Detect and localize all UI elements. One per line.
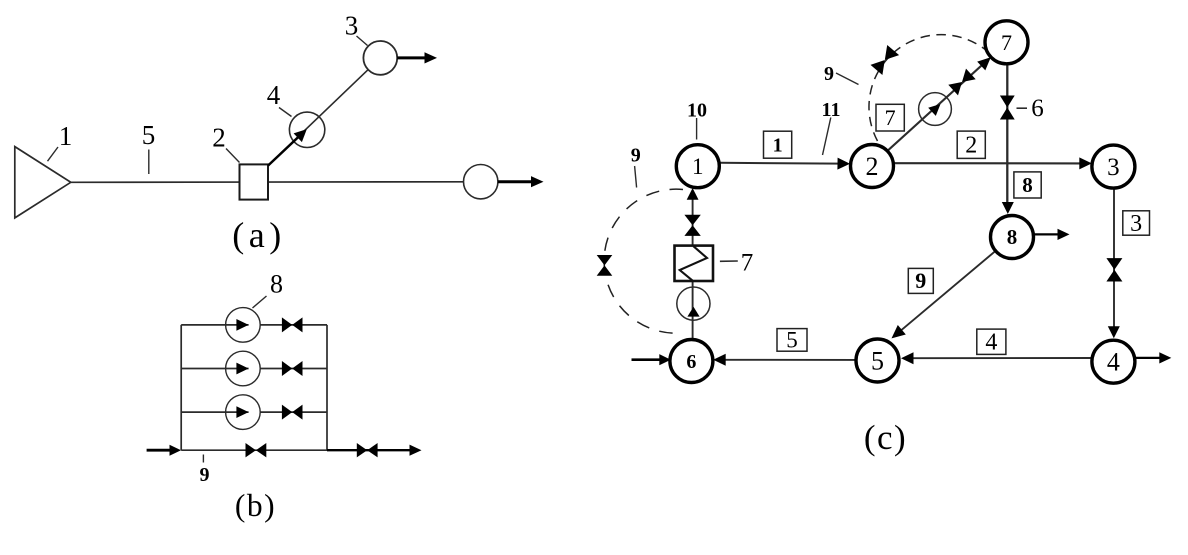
pump on pipe 2-7 (circle with arrow) bbox=[919, 93, 952, 126]
edge label box 5 bbox=[777, 327, 807, 352]
svg-text:9: 9 bbox=[631, 145, 641, 167]
label 10 with leader bbox=[687, 100, 707, 140]
svg-text:(a): (a) bbox=[232, 215, 285, 255]
node 2 (circle) bbox=[851, 145, 894, 188]
demand arrow at node 4 bbox=[1135, 352, 1171, 363]
svg-text:1: 1 bbox=[692, 154, 704, 179]
caption (c) bbox=[864, 418, 907, 457]
valve on riser bbox=[684, 215, 700, 236]
edge label box 1 bbox=[764, 131, 792, 158]
edge label box 4 bbox=[977, 329, 1006, 356]
svg-text:6: 6 bbox=[1031, 95, 1044, 122]
outlet valve bbox=[357, 443, 378, 457]
dashed loop 9 (top) bbox=[869, 35, 987, 141]
pipe 9 (node 8 to node 5) bbox=[892, 251, 996, 338]
svg-text:6: 6 bbox=[686, 351, 696, 373]
label 8 with leader (pumps) bbox=[253, 270, 284, 309]
bypass valve 9 bbox=[246, 443, 267, 457]
svg-text:7: 7 bbox=[885, 105, 896, 130]
demand arrow at node 8 bbox=[1034, 229, 1070, 240]
junction node 2 (square) bbox=[240, 164, 269, 199]
node 4 (circle) bbox=[1092, 340, 1135, 383]
node 6 (circle) bbox=[670, 340, 713, 383]
pipe 1 (node 1 to node 2) bbox=[719, 158, 850, 170]
svg-text:3: 3 bbox=[345, 11, 359, 41]
svg-text:4: 4 bbox=[267, 80, 281, 110]
inlet arrow at node 6 bbox=[632, 354, 671, 365]
svg-text:(c): (c) bbox=[864, 418, 907, 457]
svg-text:2: 2 bbox=[866, 152, 879, 181]
valve in branch 1 bbox=[282, 317, 303, 332]
valve in branch 2 bbox=[282, 361, 303, 376]
branch pipe 2 bbox=[181, 368, 327, 370]
reservoir 1 (source triangle) bbox=[15, 147, 71, 218]
bottom bypass pipe bbox=[181, 449, 330, 451]
pipe 7 (node 2 to node 7) bbox=[887, 57, 991, 151]
svg-text:1: 1 bbox=[59, 121, 73, 151]
label 11 with leader bbox=[822, 99, 841, 155]
label 9 with leader (top loop) bbox=[824, 63, 859, 85]
svg-text:8: 8 bbox=[270, 270, 283, 299]
label 1 with leader bbox=[48, 121, 73, 161]
pump on riser (circle with arrow) bbox=[677, 287, 710, 320]
branch pipe 3 bbox=[181, 411, 327, 413]
label 9 with leader (left loop) bbox=[631, 145, 641, 188]
outlet arrow (b) bbox=[410, 445, 422, 456]
demand node (right circle) bbox=[464, 165, 498, 199]
demand arrow at node 3 bbox=[397, 52, 437, 63]
node 7 (circle) bbox=[985, 21, 1028, 64]
pipe from node 7 to node 8 bbox=[1002, 64, 1014, 214]
label 7 with leader dash bbox=[720, 250, 753, 277]
svg-text:8: 8 bbox=[1007, 225, 1018, 249]
pipe 3 (node 3 to node 4) bbox=[1108, 188, 1120, 338]
demand arrow at right node bbox=[498, 176, 544, 187]
svg-text:9: 9 bbox=[915, 268, 926, 293]
valve in branch 3 bbox=[282, 405, 303, 420]
node 8 (circle) bbox=[991, 216, 1034, 259]
pipe 2 (node 2 to node 3) bbox=[894, 157, 1092, 169]
edge label box 8 bbox=[1014, 172, 1041, 198]
label 4 with leader bbox=[267, 80, 292, 117]
pump in branch 1 (circle with arrow) bbox=[226, 308, 261, 343]
pipe from node 6 to node 1 bbox=[692, 190, 694, 340]
svg-text:5: 5 bbox=[786, 327, 798, 352]
manifold right header pipe bbox=[326, 325, 328, 450]
valve on top dashed loop bbox=[871, 45, 900, 75]
pipe 5 (main line) bbox=[71, 181, 464, 184]
pump in branch 2 (circle with arrow) bbox=[226, 351, 261, 386]
heater 7 (square with zigzag) bbox=[675, 246, 714, 281]
pipe 5 (node 5 to node 6) bbox=[713, 354, 856, 366]
edge label box 2 bbox=[957, 131, 985, 159]
edge label box 9 bbox=[908, 268, 933, 293]
edge label box 3 bbox=[1123, 211, 1150, 237]
valve 6 on pipe 7-8 bbox=[1000, 96, 1015, 120]
svg-text:(b): (b) bbox=[235, 488, 276, 523]
svg-text:9: 9 bbox=[824, 63, 834, 85]
edge label box 7 bbox=[876, 104, 904, 131]
branch pipe 1 bbox=[181, 324, 327, 326]
label 6 with leader dash bbox=[1017, 95, 1044, 122]
pipe 4 (node 4 to node 5) bbox=[901, 352, 1092, 364]
svg-text:1: 1 bbox=[773, 134, 783, 156]
branch pipe to node 3 bbox=[268, 58, 380, 166]
label 5 with leader bbox=[142, 120, 156, 174]
svg-text:4: 4 bbox=[1107, 348, 1120, 377]
svg-text:5: 5 bbox=[871, 346, 884, 375]
svg-text:9: 9 bbox=[200, 464, 210, 486]
valve on pipe 2-7 bbox=[948, 69, 975, 96]
pump in branch 3 (circle with arrow) bbox=[226, 395, 261, 430]
demand node 3 (circle) bbox=[363, 41, 397, 75]
valve on left dashed loop bbox=[597, 255, 613, 276]
node 3 (circle) bbox=[1092, 145, 1135, 188]
svg-text:3: 3 bbox=[1107, 154, 1120, 181]
svg-text:7: 7 bbox=[1001, 30, 1012, 55]
manifold left header pipe bbox=[180, 325, 182, 450]
svg-text:7: 7 bbox=[741, 250, 754, 277]
node 1 (circle) bbox=[676, 145, 719, 188]
svg-text:8: 8 bbox=[1022, 173, 1033, 197]
inlet arrow (b) bbox=[147, 445, 181, 456]
svg-text:3: 3 bbox=[1130, 211, 1142, 237]
dashed loop 9 (left) bbox=[604, 189, 683, 333]
outlet pipe (b) bbox=[327, 449, 411, 451]
svg-text:2: 2 bbox=[212, 123, 226, 153]
svg-text:5: 5 bbox=[142, 120, 156, 150]
pump 4 (circle with arrow) bbox=[268, 112, 325, 166]
svg-text:4: 4 bbox=[985, 330, 997, 356]
arrow into node 1 bbox=[687, 188, 699, 200]
caption (b) bbox=[235, 488, 276, 523]
caption (a) bbox=[232, 215, 285, 255]
svg-text:2: 2 bbox=[965, 133, 977, 159]
node 5 (circle) bbox=[856, 339, 899, 382]
label 2 with leader bbox=[212, 123, 239, 163]
label 9 with leader (bypass) bbox=[200, 455, 210, 487]
valve on pipe 3-4 bbox=[1106, 258, 1122, 281]
label 3 with leader bbox=[345, 11, 368, 46]
